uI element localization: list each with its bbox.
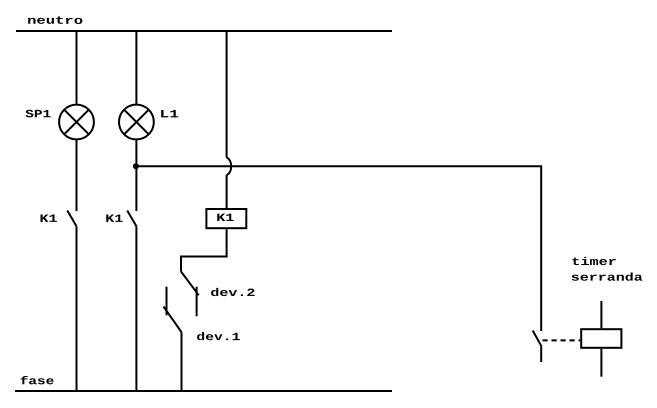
wire fase bus [15, 390, 392, 392]
mechanical link (dashed) switch to timer coil [543, 339, 581, 341]
wire control (junction to timer switch) [136, 166, 541, 331]
wire branch1 bottom (contact K1a to fase) [76, 226, 78, 391]
svg-text:dev.2: dev.2 [210, 286, 255, 299]
wire dev.1 to fase [181, 332, 183, 391]
switch dev.1 blade [164, 307, 182, 333]
switch dev.2 blade [181, 272, 199, 296]
switch timer blade [533, 331, 542, 347]
lamp SP1 [59, 105, 94, 140]
svg-text:fase: fase [20, 375, 55, 388]
wire neutro bus [16, 30, 392, 32]
wire branch3 (hop to relay coil K1) [226, 175, 228, 208]
switch dev.2 contact stub [196, 287, 198, 317]
svg-text:serranda: serranda [571, 271, 643, 284]
switch dev.1 contact stub [166, 287, 168, 316]
relay coil K1 [206, 209, 246, 228]
node junction on branch2 [133, 163, 139, 169]
contact K1a blade [67, 211, 76, 227]
wire timer coil bottom stub [600, 349, 602, 377]
wire branch2 bottom (contact K1b to fase) [135, 226, 137, 391]
svg-text:L1: L1 [159, 108, 179, 121]
timer coil box [581, 329, 621, 348]
svg-text:dev.1: dev.1 [196, 330, 240, 343]
wire branch1 middle (lamp SP1 to contact K1a) [76, 140, 78, 211]
svg-text:neutro: neutro [27, 14, 83, 27]
wire branch2 middle (lamp L1 to contact K1b) [135, 140, 137, 211]
contact K1b blade [127, 211, 136, 227]
wire branch3 top (neutro to hop) [226, 31, 228, 158]
svg-text:K1: K1 [39, 212, 57, 225]
wire branch2 top (neutro to lamp L1) [135, 31, 137, 105]
svg-text:K1: K1 [105, 212, 123, 225]
svg-text:SP1: SP1 [25, 107, 51, 120]
wire below timer switch [540, 346, 542, 362]
wire branch1 top (neutro to lamp SP1) [76, 31, 78, 105]
lamp L1 [119, 105, 154, 140]
wire hop over control wire [227, 158, 232, 176]
svg-text:timer: timer [571, 255, 617, 268]
svg-text:K1: K1 [216, 211, 234, 224]
wire timer coil top stub [600, 301, 602, 328]
wire coil K1 to jog corner [181, 229, 227, 271]
